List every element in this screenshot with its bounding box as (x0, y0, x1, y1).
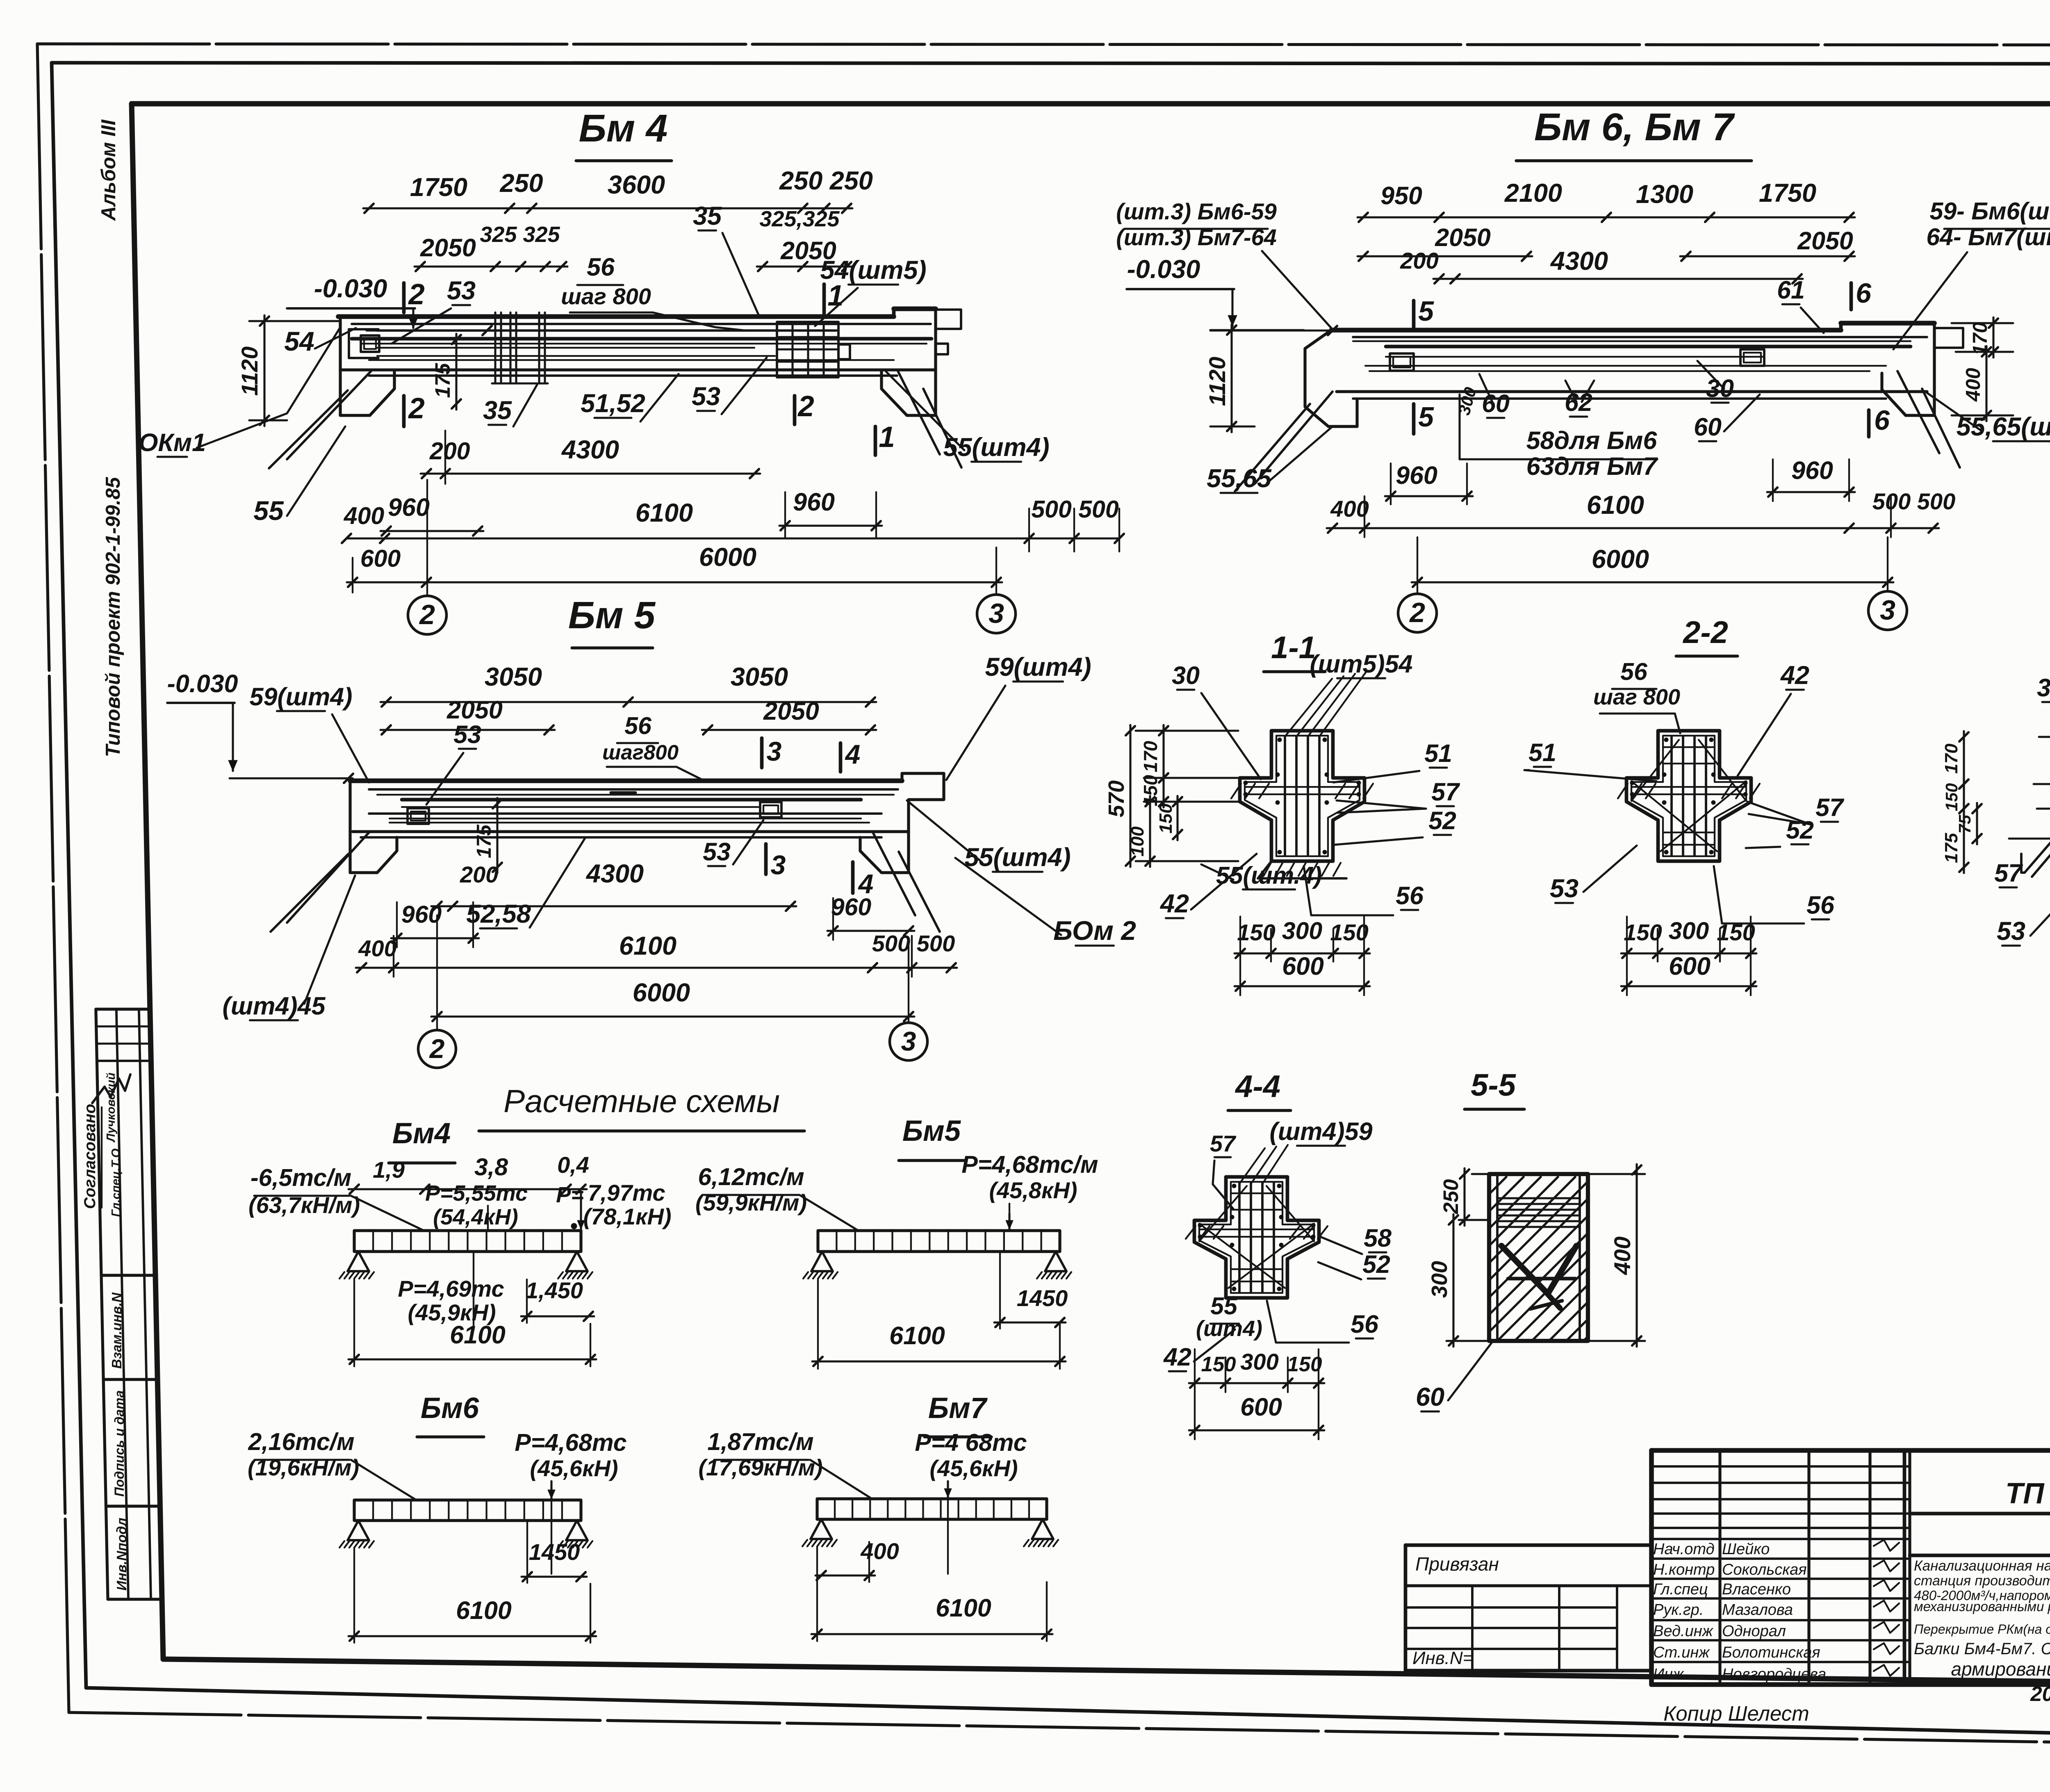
svg-text:4-4: 4-4 (1235, 1069, 1280, 1104)
svg-text:59(шт4): 59(шт4) (250, 683, 353, 711)
svg-text:6000: 6000 (699, 543, 756, 572)
svg-text:6100: 6100 (619, 932, 676, 960)
svg-text:Р=4 68тс: Р=4 68тс (915, 1429, 1027, 1456)
svg-text:ОКм1: ОКм1 (139, 429, 206, 456)
svg-text:-0.030: -0.030 (1127, 255, 1200, 284)
svg-text:170: 170 (1140, 741, 1161, 772)
svg-text:Привязан: Привязан (1415, 1553, 1499, 1575)
svg-text:60: 60 (1416, 1383, 1444, 1411)
svg-text:Новгородцева: Новгородцева (1722, 1666, 1826, 1683)
svg-text:175: 175 (1941, 833, 1961, 863)
svg-text:3050: 3050 (485, 663, 542, 691)
svg-text:(17,69кН/м): (17,69кН/м) (698, 1455, 822, 1480)
svg-text:600: 600 (360, 545, 401, 572)
svg-text:200: 200 (429, 438, 470, 465)
svg-text:Инв.N=: Инв.N= (1412, 1648, 1473, 1668)
svg-text:1450: 1450 (529, 1539, 580, 1565)
svg-text:35: 35 (483, 396, 512, 425)
svg-text:52: 52 (1428, 807, 1456, 834)
svg-text:600: 600 (1282, 952, 1324, 980)
svg-text:(шт.3) Бм6-59: (шт.3) Бм6-59 (1116, 198, 1277, 224)
svg-text:Перекрытие РКм(на отм ±0,000): Перекрытие РКм(на отм ±0,000) (1914, 1622, 2050, 1637)
svg-text:1750: 1750 (1759, 179, 1816, 207)
svg-text:Ст.инж: Ст.инж (1653, 1644, 1710, 1661)
svg-text:4300: 4300 (585, 860, 644, 888)
svg-text:56: 56 (1396, 882, 1424, 910)
svg-text:500 500: 500 500 (872, 930, 955, 956)
svg-text:Бм 5: Бм 5 (568, 594, 656, 636)
svg-text:Шейко: Шейко (1722, 1541, 1770, 1558)
svg-text:60: 60 (1482, 390, 1510, 417)
svg-text:шаг 800: шаг 800 (1593, 685, 1680, 709)
svg-text:Вед.инж: Вед.инж (1653, 1623, 1714, 1640)
svg-text:150: 150 (1624, 919, 1662, 945)
svg-text:53: 53 (453, 720, 481, 748)
svg-text:150: 150 (1237, 919, 1275, 945)
svg-text:30: 30 (1172, 661, 1200, 689)
svg-text:2: 2 (429, 1033, 445, 1064)
svg-text:1450: 1450 (1017, 1285, 1068, 1311)
svg-text:3,8: 3,8 (474, 1154, 508, 1181)
svg-text:(78,1кН): (78,1кН) (583, 1204, 671, 1229)
svg-text:(шт5)54: (шт5)54 (1310, 650, 1413, 678)
svg-text:6100: 6100 (1587, 491, 1644, 520)
svg-text:53: 53 (1997, 917, 2025, 946)
svg-text:35: 35 (693, 202, 722, 230)
svg-text:Мазалова: Мазалова (1722, 1601, 1793, 1619)
svg-text:960: 960 (1791, 456, 1833, 484)
svg-text:Рук.гр.: Рук.гр. (1653, 1601, 1704, 1619)
svg-text:7,97тс: 7,97тс (588, 1180, 665, 1206)
svg-text:-6,5тс/м: -6,5тс/м (251, 1164, 351, 1191)
svg-text:150: 150 (1330, 919, 1368, 945)
svg-text:54: 54 (284, 326, 314, 356)
svg-text:56: 56 (1806, 891, 1835, 919)
svg-text:4: 4 (845, 739, 861, 769)
svg-text:Подпись и дата: Подпись и дата (112, 1390, 127, 1496)
svg-text:2050: 2050 (446, 696, 503, 724)
svg-text:Инв.Nподл: Инв.Nподл (114, 1518, 129, 1591)
svg-text:3: 3 (901, 1026, 916, 1056)
svg-text:960: 960 (1396, 461, 1437, 489)
svg-text:Р=4,68тс/м: Р=4,68тс/м (961, 1151, 1098, 1178)
svg-text:Р=4,69тс: Р=4,69тс (398, 1276, 504, 1302)
svg-text:Р=5,55тс: Р=5,55тс (425, 1181, 528, 1206)
svg-text:(59,9кН/м): (59,9кН/м) (695, 1190, 807, 1215)
svg-text:6: 6 (1874, 405, 1890, 436)
svg-text:57: 57 (1994, 859, 2023, 887)
svg-text:(63,7кН/м): (63,7кН/м) (248, 1192, 360, 1218)
svg-text:53: 53 (703, 838, 731, 866)
svg-text:Нач.отд: Нач.отд (1653, 1541, 1715, 1558)
svg-text:2050: 2050 (420, 234, 476, 262)
svg-text:400: 400 (344, 502, 385, 529)
svg-text:6: 6 (1856, 278, 1872, 309)
svg-text:6000: 6000 (1592, 545, 1649, 574)
svg-text:Согласовано: Согласовано (81, 1104, 99, 1209)
svg-text:6,12тс/м: 6,12тс/м (698, 1163, 804, 1190)
svg-text:51: 51 (1528, 739, 1556, 766)
svg-text:-0.030: -0.030 (314, 274, 387, 303)
svg-text:960: 960 (793, 488, 835, 516)
svg-text:Балки Бм4-Бм7. Схема: Балки Бм4-Бм7. Схема (1914, 1640, 2050, 1658)
svg-text:Р=: Р= (556, 1183, 584, 1207)
svg-text:500 500: 500 500 (1872, 488, 1955, 514)
svg-text:59(шт4): 59(шт4) (985, 653, 1091, 682)
svg-text:1750: 1750 (410, 173, 467, 202)
svg-text:57: 57 (1210, 1131, 1237, 1156)
svg-text:300: 300 (1454, 385, 1480, 417)
svg-text:52: 52 (1362, 1250, 1390, 1278)
svg-text:6100: 6100 (635, 499, 693, 527)
svg-text:(45,6кН): (45,6кН) (530, 1455, 618, 1481)
svg-text:30: 30 (1706, 374, 1734, 402)
svg-text:56: 56 (1620, 658, 1648, 685)
svg-text:1,450: 1,450 (526, 1277, 583, 1303)
svg-text:300: 300 (1282, 917, 1323, 944)
svg-text:53: 53 (447, 276, 476, 305)
svg-text:Бм 4: Бм 4 (579, 107, 668, 150)
svg-text:58: 58 (1364, 1224, 1392, 1252)
svg-text:55,65: 55,65 (1207, 464, 1272, 493)
svg-text:400: 400 (860, 1538, 899, 1564)
svg-text:55: 55 (1210, 1293, 1238, 1320)
svg-text:шаг800: шаг800 (602, 741, 679, 764)
svg-text:1300: 1300 (1636, 180, 1693, 209)
svg-text:шаг 800: шаг 800 (561, 283, 651, 309)
svg-text:2050: 2050 (1797, 227, 1853, 255)
svg-text:Канализационная насосная: Канализационная насосная (1914, 1558, 2050, 1574)
svg-text:400: 400 (358, 935, 396, 961)
svg-text:1120: 1120 (237, 347, 262, 396)
svg-text:1-1: 1-1 (1271, 630, 1316, 665)
svg-text:Альбом III: Альбом III (98, 119, 120, 221)
svg-text:30: 30 (2037, 674, 2050, 702)
svg-text:Власенко: Власенко (1722, 1581, 1791, 1598)
svg-text:4300: 4300 (561, 435, 619, 464)
svg-text:57: 57 (1431, 778, 1460, 806)
svg-text:2: 2 (419, 599, 435, 630)
svg-text:51: 51 (1424, 739, 1452, 767)
svg-text:2,16тс/м: 2,16тс/м (248, 1428, 354, 1455)
svg-text:Болотинская: Болотинская (1722, 1644, 1820, 1661)
svg-text:325,325: 325,325 (759, 207, 840, 231)
svg-text:1,9: 1,9 (373, 1157, 405, 1183)
svg-text:3: 3 (771, 850, 786, 880)
svg-text:300: 300 (1669, 917, 1709, 944)
svg-text:3050: 3050 (731, 663, 788, 691)
svg-text:960: 960 (831, 894, 872, 921)
svg-text:53: 53 (1550, 874, 1578, 903)
svg-text:600: 600 (1669, 952, 1711, 980)
svg-text:Бм5: Бм5 (902, 1115, 961, 1147)
svg-text:175: 175 (431, 363, 454, 398)
svg-text:армирования: армирования (1951, 1658, 2050, 1680)
svg-text:Однорал: Однорал (1722, 1623, 1786, 1640)
svg-text:Н.контр: Н.контр (1653, 1561, 1715, 1578)
svg-text:52: 52 (1786, 816, 1814, 844)
svg-text:400: 400 (1609, 1236, 1635, 1275)
svg-text:0,4: 0,4 (557, 1152, 589, 1178)
svg-text:5: 5 (1418, 401, 1434, 433)
svg-text:57: 57 (1815, 793, 1845, 821)
svg-text:3: 3 (1880, 595, 1895, 626)
svg-text:3: 3 (767, 736, 782, 766)
svg-text:64- Бм7(шт 3): 64- Бм7(шт 3) (1926, 223, 2050, 251)
svg-text:2: 2 (1409, 597, 1425, 628)
svg-text:600: 600 (1240, 1393, 1282, 1421)
svg-text:4300: 4300 (1550, 247, 1608, 276)
svg-text:55: 55 (253, 495, 284, 526)
svg-text:400: 400 (1962, 368, 1984, 402)
svg-text:950: 950 (1380, 182, 1422, 210)
svg-text:63для Бм7: 63для Бм7 (1526, 452, 1658, 480)
svg-text:55(шт4): 55(шт4) (943, 433, 1049, 462)
svg-text:Бм 6, Бм 7: Бм 6, Бм 7 (1534, 105, 1735, 149)
svg-text:2100: 2100 (1504, 179, 1562, 207)
svg-text:54(шт5): 54(шт5) (820, 256, 926, 285)
svg-text:6000: 6000 (633, 978, 690, 1007)
svg-text:БОм 2: БОм 2 (1053, 915, 1136, 946)
svg-text:1: 1 (879, 421, 895, 454)
svg-text:2050: 2050 (1435, 223, 1491, 251)
svg-text:150: 150 (1942, 783, 1961, 812)
svg-text:ТП 902-1-99.В5-КЖ: ТП 902-1-99.В5-КЖ (2005, 1477, 2050, 1510)
svg-text:325 325: 325 325 (480, 222, 560, 247)
svg-text:59- Бм6(шт3): 59- Бм6(шт3) (1930, 198, 2050, 225)
svg-text:300: 300 (1240, 1349, 1278, 1375)
svg-text:(54,4кН): (54,4кН) (433, 1205, 518, 1229)
svg-text:960: 960 (401, 901, 442, 928)
svg-text:5-5: 5-5 (1471, 1068, 1517, 1103)
svg-text:2: 2 (408, 392, 425, 425)
svg-text:Инж: Инж (1653, 1666, 1684, 1683)
svg-text:175: 175 (473, 824, 495, 858)
svg-text:Бм6: Бм6 (421, 1392, 479, 1425)
svg-text:960: 960 (388, 493, 430, 521)
svg-text:56: 56 (1351, 1310, 1379, 1338)
svg-text:Копир Шелест: Копир Шелест (1663, 1702, 1809, 1725)
svg-text:58для Бм6: 58для Бм6 (1526, 426, 1658, 454)
svg-text:200: 200 (1400, 248, 1438, 274)
svg-text:42: 42 (1159, 889, 1189, 918)
svg-text:400: 400 (1330, 496, 1369, 522)
svg-text:станция производительностью: станция производительностью (1914, 1573, 2050, 1589)
svg-text:Р=4,68тс: Р=4,68тс (515, 1429, 626, 1456)
svg-text:56: 56 (587, 253, 615, 281)
svg-text:56: 56 (624, 712, 652, 739)
svg-text:(шт4)45: (шт4)45 (223, 992, 326, 1020)
svg-text:Расчетные схемы: Расчетные схемы (503, 1083, 780, 1119)
svg-text:150: 150 (1156, 803, 1176, 834)
svg-text:200: 200 (460, 862, 498, 887)
svg-text:55,65(шт3): 55,65(шт3) (1957, 413, 2050, 441)
svg-text:Типовой проект 902-1-99.85: Типовой проект 902-1-99.85 (102, 477, 124, 757)
svg-text:100: 100 (1127, 826, 1148, 857)
svg-text:53: 53 (692, 382, 720, 411)
svg-text:42: 42 (1163, 1343, 1191, 1371)
svg-text:2050: 2050 (763, 697, 819, 725)
svg-text:60: 60 (1694, 413, 1722, 441)
svg-text:6100: 6100 (889, 1322, 945, 1350)
svg-text:250: 250 (499, 169, 543, 198)
svg-text:Гл.спец.Т.О.: Гл.спец.Т.О. (109, 1145, 123, 1217)
svg-text:6100: 6100 (450, 1321, 506, 1349)
svg-text:2: 2 (797, 390, 814, 423)
svg-text:Сокольская: Сокольская (1722, 1561, 1807, 1578)
svg-text:(19,6кН/м): (19,6кН/м) (248, 1455, 359, 1480)
svg-text:300: 300 (1427, 1261, 1452, 1298)
svg-text:-0.030: -0.030 (167, 670, 238, 698)
svg-text:Взам.инв.N: Взам.инв.N (109, 1292, 124, 1369)
svg-text:1120: 1120 (1204, 357, 1230, 406)
svg-text:Бм4: Бм4 (392, 1117, 451, 1150)
svg-text:20729-03: 20729-03 (2030, 1682, 2050, 1705)
svg-text:2: 2 (408, 278, 425, 311)
svg-text:6100: 6100 (456, 1596, 512, 1624)
svg-text:150: 150 (1201, 1352, 1236, 1376)
svg-text:250 250: 250 250 (779, 166, 873, 195)
svg-text:61: 61 (1777, 276, 1805, 304)
svg-text:150: 150 (1287, 1352, 1322, 1376)
svg-text:3600: 3600 (608, 171, 665, 199)
svg-text:(45,6кН): (45,6кН) (929, 1455, 1018, 1481)
svg-text:Бм7: Бм7 (928, 1392, 988, 1425)
svg-text:(шт.3) Бм7-64: (шт.3) Бм7-64 (1116, 224, 1277, 250)
svg-text:150: 150 (1717, 919, 1755, 945)
svg-text:(45,8кН): (45,8кН) (989, 1177, 1077, 1203)
svg-text:1,87тс/м: 1,87тс/м (707, 1428, 813, 1455)
svg-text:механизированными решетками: механизированными решетками (1914, 1599, 2050, 1614)
svg-text:52,58: 52,58 (466, 900, 531, 928)
svg-text:3: 3 (989, 598, 1004, 629)
svg-text:5: 5 (1418, 296, 1434, 327)
svg-text:2-2: 2-2 (1682, 615, 1728, 650)
svg-text:570: 570 (1104, 780, 1129, 817)
svg-text:250: 250 (1439, 1179, 1462, 1214)
svg-text:(шт4)59: (шт4)59 (1270, 1117, 1373, 1145)
svg-text:170: 170 (1941, 743, 1961, 774)
svg-text:55(шт4): 55(шт4) (964, 843, 1071, 872)
svg-text:6100: 6100 (936, 1594, 991, 1622)
svg-text:Гл.спец: Гл.спец (1653, 1581, 1708, 1598)
svg-text:42: 42 (1780, 661, 1809, 690)
svg-text:51,52: 51,52 (581, 389, 645, 418)
svg-text:(шт4): (шт4) (1196, 1316, 1262, 1341)
